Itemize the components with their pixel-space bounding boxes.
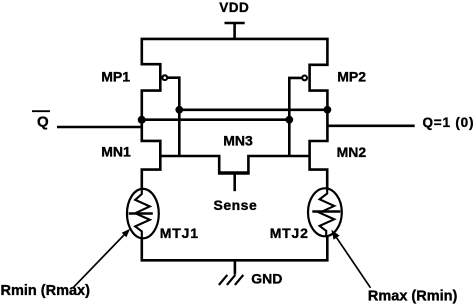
svg-text:MP1: MP1 — [101, 69, 130, 85]
svg-text:MTJ2: MTJ2 — [270, 225, 309, 241]
svg-text:MN3: MN3 — [223, 132, 253, 148]
svg-text:GND: GND — [251, 271, 282, 287]
svg-text:Q=1 (0): Q=1 (0) — [423, 115, 474, 130]
svg-text:MTJ1: MTJ1 — [160, 225, 199, 241]
svg-text:MN1: MN1 — [101, 144, 131, 160]
svg-text:MN2: MN2 — [337, 144, 367, 160]
svg-text:Rmax (Rmin): Rmax (Rmin) — [368, 289, 458, 304]
svg-text:VDD: VDD — [219, 0, 249, 15]
svg-text:Q: Q — [37, 113, 49, 130]
svg-text:Sense: Sense — [214, 197, 258, 213]
svg-text:MP2: MP2 — [337, 69, 366, 85]
svg-text:Rmin (Rmax): Rmin (Rmax) — [1, 283, 91, 299]
